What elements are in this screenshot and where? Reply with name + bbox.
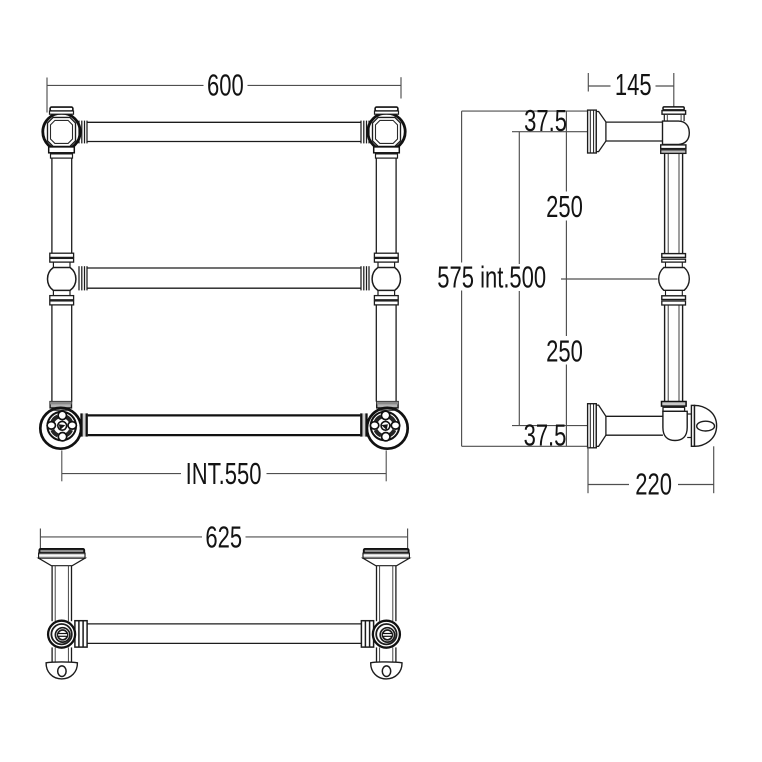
right post lower segment [376, 305, 396, 402]
dimension 600 left tick [46, 78, 48, 113]
side view middle ball joint [659, 254, 690, 305]
plan view left arm tube [52, 566, 71, 622]
dimension 220 left tick [587, 447, 589, 494]
corner joint top-right [368, 107, 405, 158]
plan view right lower stub [377, 647, 396, 662]
left post upper segment [52, 158, 72, 253]
svg-text:37.5: 37.5 [524, 418, 567, 453]
svg-text:37.5: 37.5 [524, 103, 567, 138]
side view top ball joint [661, 107, 690, 154]
plan view rail [87, 624, 361, 644]
dimension 145 line left segment [588, 85, 610, 87]
svg-text:INT.550: INT.550 [186, 456, 262, 491]
side post upper segment [665, 154, 683, 254]
INT.550 dimension line right segment [267, 473, 387, 475]
plan view left end cap [46, 662, 77, 679]
top rail right end ring [361, 121, 369, 144]
bottom wall bracket plate and cone [588, 404, 606, 448]
dimension 220 line right segment [678, 484, 714, 486]
svg-text:220: 220 [635, 467, 672, 502]
dimension 575 bottom tick [462, 445, 588, 447]
svg-text:250: 250 [546, 334, 583, 369]
plan view right wall flange [363, 549, 409, 566]
dimension int.500 vertical line upper [518, 132, 520, 264]
top rail left end ring [79, 121, 87, 144]
plan view rail left end ring [75, 621, 87, 647]
dimension 575 vertical line lower [461, 291, 463, 447]
bottom support arm [606, 416, 663, 435]
dimension 145 left tick [587, 73, 589, 92]
side view bottom elbow [662, 402, 688, 441]
dimension 625 left tick [39, 529, 41, 560]
bottom rail left end ring [81, 413, 88, 436]
svg-text:145: 145 [615, 68, 652, 103]
dimension 625 line right segment [246, 536, 408, 538]
dimension 575 vertical line upper [461, 111, 463, 262]
mid-ball tick [561, 278, 658, 280]
valve wheel bottom-right [367, 402, 408, 449]
right post upper segment [376, 158, 396, 253]
side post lower segment [665, 305, 683, 401]
dimension 625 line left segment [40, 536, 202, 538]
plan view right end cap [371, 662, 402, 679]
dimension 220 right tick [713, 446, 715, 493]
middle rail left end ring [79, 266, 87, 290]
INT.550 right extension line [385, 450, 387, 481]
valve knob side view [687, 405, 716, 446]
left post lower segment [52, 305, 72, 402]
valve wheel bottom-left [40, 402, 81, 449]
dimension 145 line right segment [656, 85, 674, 87]
svg-text:625: 625 [205, 520, 242, 555]
top rail [87, 122, 361, 141]
corner joint top-left [43, 107, 80, 158]
middle joint left [47, 253, 75, 305]
dimension 600 right tick [400, 77, 402, 98]
INT.550 left extension line [61, 450, 63, 481]
dimension 600 line right segment [248, 84, 402, 86]
arm-center tick top [512, 131, 589, 133]
plan view left wall flange [39, 549, 85, 566]
arm-center tick bottom [512, 425, 589, 427]
bottom rail [88, 415, 361, 435]
dimension 600 line left segment [47, 84, 204, 86]
INT.550 dimension line left segment [62, 473, 181, 475]
dimension 220 line left segment [588, 484, 629, 486]
svg-text:250: 250 [546, 189, 583, 224]
plan view left lower stub [52, 647, 71, 662]
dimension 625 right tick [407, 529, 409, 560]
middle rail right end ring [361, 266, 369, 290]
dimension 250 stack line segment 1 [565, 111, 567, 191]
middle joint right [372, 253, 400, 305]
dimension 250 stack line segment 3 [565, 365, 567, 447]
svg-text:600: 600 [207, 68, 244, 103]
top support arm [606, 122, 663, 141]
dimension int.500 vertical line lower [518, 291, 520, 426]
dimension 250 stack line segment 2 [565, 221, 567, 337]
plan view right valve wheel [373, 621, 400, 648]
plan view rail right end ring [361, 621, 373, 647]
plan view left valve wheel [48, 621, 75, 648]
middle rail [87, 268, 361, 288]
dimension 575 top tick [462, 110, 588, 112]
svg-text:575 int.500: 575 int.500 [437, 260, 546, 295]
plan view right arm tube [377, 566, 396, 622]
bottom rail right end ring [360, 413, 367, 436]
top wall bracket plate and cone [588, 110, 606, 153]
dimension 145 right tick [673, 73, 675, 107]
